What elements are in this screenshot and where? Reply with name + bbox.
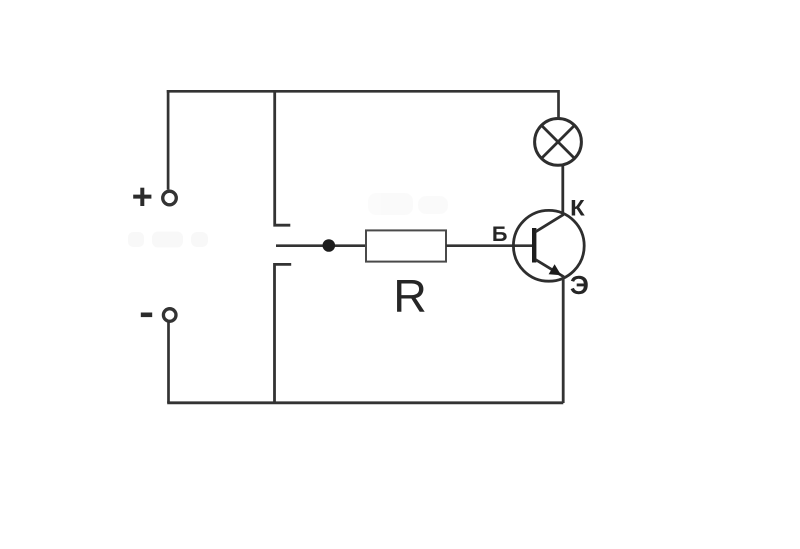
resistor R (body) — [366, 230, 446, 261]
svg-text:Б: Б — [492, 223, 508, 246]
transistor collector lead (diagonal up to lamp wire) — [536, 165, 563, 232]
wire emitter vertical to bottom — [562, 276, 565, 404]
terminal + (open circle) — [163, 191, 177, 205]
node junction dot — [323, 239, 336, 252]
label + — [133, 188, 151, 206]
lower sensor plate with wire to bottom — [275, 264, 292, 404]
transistor base bar — [532, 228, 536, 263]
terminal - (open circle) — [163, 309, 176, 322]
wire bottom horizontal — [167, 401, 563, 404]
wire left vertical (- terminal to bottom wire) — [167, 322, 170, 403]
wire left vertical (top wire to + terminal) — [167, 90, 170, 190]
emitter arrowhead — [549, 264, 562, 275]
lamp HL1 (circle with cross) — [535, 118, 582, 165]
transistor Q1 (circle) — [513, 210, 584, 281]
wire resistor to transistor base — [446, 244, 534, 247]
wire top to lamp — [557, 90, 560, 119]
svg-text:К: К — [570, 196, 585, 221]
label - — [141, 312, 152, 317]
faint smudge artifact left-middle — [128, 232, 208, 248]
wire middle vertical from top with contact foot (upper sensor plate) — [275, 90, 291, 225]
svg-text:Э: Э — [570, 272, 589, 300]
wire top horizontal — [167, 90, 559, 93]
transistor emitter lead (diagonal down) — [536, 260, 564, 277]
wire base horizontal (sensor to resistor) — [276, 244, 367, 247]
svg-text:R: R — [393, 270, 427, 322]
faint smudge artifact above resistor — [368, 193, 448, 215]
